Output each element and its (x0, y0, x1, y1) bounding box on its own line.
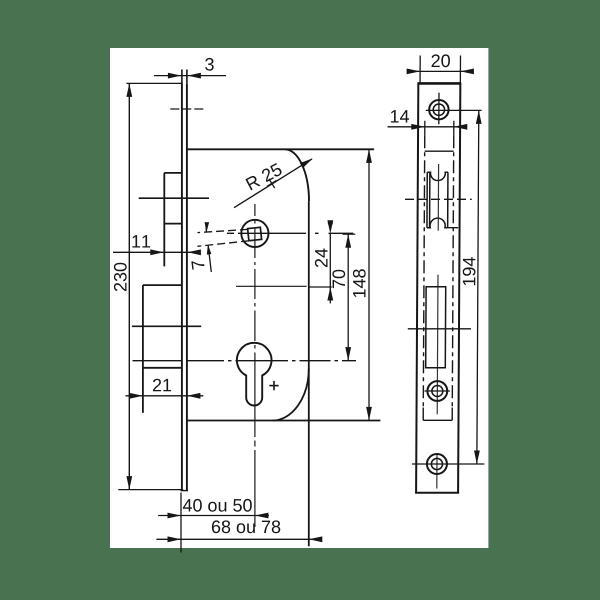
7 dim lower arrow (up) (206, 244, 212, 254)
roller bottom extension (448, 227, 459, 229)
dim 24 bottom arrow (up) (327, 287, 333, 301)
230 top arrow (126, 83, 132, 97)
text 11 (132, 235, 150, 247)
230 bottom arrow (126, 476, 132, 490)
dim 11 right arrow (187, 249, 201, 255)
vertical center line (254, 204, 256, 527)
text 7 (191, 260, 204, 270)
dim 14 line (388, 126, 466, 128)
cutout axis (408, 328, 471, 330)
alternate axis line y286 (236, 285, 307, 287)
screw hole 1 outer (429, 100, 449, 119)
euro cylinder circle (237, 343, 272, 406)
latch opening top line (425, 150, 454, 152)
230 dim line (128, 83, 130, 489)
7-dim upper leader dashed (198, 229, 249, 232)
dim 3 right arrow (187, 73, 201, 79)
dim 70 top arrow (345, 234, 351, 248)
roller bolt left edge (double) (426, 172, 428, 227)
faceplate right line (186, 84, 188, 491)
20 dim left extension (419, 56, 421, 84)
dim 14 right arrow (454, 124, 468, 130)
case bottom-right corner arc (273, 369, 309, 421)
screw hole 3 outer (427, 454, 447, 474)
dim 40ou50 right arrow (255, 513, 269, 519)
cylinder axis line (133, 360, 357, 362)
inner line right solid foot (451, 408, 453, 421)
7 dim lower segment (208, 245, 211, 272)
text 21 (153, 379, 171, 392)
lower mortise box top edge (143, 284, 182, 286)
roller bolt right edge (447, 172, 449, 227)
lower box bottom edge (143, 367, 182, 369)
dim 3 line (154, 75, 226, 77)
7 dim upper arrow (down) (204, 222, 209, 232)
dim 70 bottom arrow (345, 347, 351, 361)
dim 68ou78 left arrow (168, 536, 182, 542)
dim 148 line (368, 149, 370, 420)
text 14 (391, 110, 409, 122)
inner dash line left (423, 135, 424, 407)
screw hole 2 inner (432, 386, 443, 397)
text 70 (332, 270, 345, 288)
case top edge + 148 extension (187, 148, 374, 150)
case right edge + 68/78 extension (308, 201, 310, 546)
faceplate bottom cap (181, 490, 189, 492)
roller bottom contour (427, 218, 448, 228)
24 extension line (309, 286, 332, 288)
screw 3 axis + 194 bottom extension (412, 463, 484, 465)
upper box bottom edge (164, 223, 182, 225)
plate center line segment (screw3) (436, 454, 438, 489)
14 extension ticks (424, 121, 426, 136)
dim 148 top arrow (366, 149, 372, 163)
plate top edge (417, 82, 461, 85)
upper mortise box top edge (164, 172, 182, 174)
screw hole 3 inner (431, 458, 442, 469)
dim 21 left arrow (129, 393, 143, 399)
dim 21 line (126, 395, 204, 397)
dim 68ou78 right arrow (309, 536, 323, 542)
lower box left edge + 21 dim extension (142, 285, 144, 413)
text 194 (463, 257, 476, 285)
dim 194 top arrow (476, 110, 482, 124)
40/68 dims left extension (180, 493, 182, 553)
plate right edge (458, 83, 460, 492)
dim 68ou78 line (156, 538, 320, 540)
dim 11 line (113, 251, 198, 253)
20 dim right extension (459, 56, 461, 84)
roller axis line (139, 197, 209, 199)
case bottom edge + 148 extension (187, 420, 381, 422)
screw 1 vertical tick (438, 93, 440, 125)
text 230 (114, 263, 127, 291)
dim 20 line (409, 70, 473, 72)
white drawing sheet (110, 48, 488, 548)
dim 24 arrow tail dot (328, 221, 333, 226)
dim 20 right arrow (460, 69, 474, 75)
case top-right corner arc R25 (285, 149, 309, 201)
screw hole 2 outer (427, 381, 447, 401)
R25 leader line (234, 159, 312, 208)
inner dash line right (452, 135, 453, 407)
text 3 (205, 58, 214, 71)
inner line left solid foot (422, 408, 424, 421)
plus mark (269, 385, 278, 387)
dim 148 bottom arrow (366, 407, 372, 421)
dim 14 left arrow (411, 124, 425, 130)
text 68 ou 78 (212, 520, 280, 533)
upper box left edge + 11 dim extension (163, 173, 165, 267)
roller axis dashed (405, 198, 472, 200)
top screw axis tick (170, 108, 204, 110)
dim 24 top arrow (down) (327, 220, 333, 234)
roller top contour (427, 172, 448, 180)
cutout axis line (132, 325, 201, 327)
dim 11 left arrow (150, 249, 164, 255)
screw 1 axis + 194 top extension (426, 109, 482, 111)
cutout rectangle (426, 287, 446, 368)
dim 24 line (329, 234, 331, 304)
230 dim top extension line (126, 82, 182, 84)
spindle square (248, 227, 262, 240)
70 top extension (343, 233, 356, 235)
text R25 (245, 162, 283, 190)
follower circle (241, 220, 268, 247)
dim 3 extension stubs (faceplate lines extended up) (181, 70, 183, 84)
dim 3 left arrow (168, 73, 182, 79)
dim 40ou50 line (158, 515, 269, 517)
screw 2 tick (424, 390, 450, 392)
text 148 (353, 269, 366, 297)
dim 40ou50 left arrow (168, 513, 182, 519)
dim 20 left arrow (407, 69, 421, 75)
text 20 (432, 54, 450, 67)
7-dim lower leader dashed (198, 241, 250, 247)
230 dim bottom extension (118, 489, 183, 491)
follower axis line (227, 232, 353, 234)
dim 21 right arrow (187, 393, 201, 399)
dim 194 bottom arrow (474, 451, 480, 465)
plate left edge (416, 83, 418, 492)
dim 70 line (347, 234, 349, 360)
plate bottom edge (415, 492, 459, 494)
text 24 (315, 249, 328, 268)
R25 arrowhead (300, 156, 315, 168)
7 dim upper segment (205, 223, 208, 232)
plate center line segment (cutout) (436, 275, 439, 415)
R25 radius center cross (264, 176, 279, 191)
faceplate left line (181, 83, 183, 490)
text 40 ou 50 (183, 499, 252, 512)
plate center line segment (roller) (437, 164, 439, 231)
screw hole 1 inner (433, 104, 444, 115)
dim 194 line (477, 110, 479, 464)
inner lines bottom connector (423, 419, 452, 421)
